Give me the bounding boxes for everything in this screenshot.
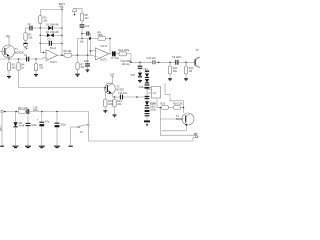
node	[109, 38, 111, 40]
switch S1	[71, 112, 90, 135]
node	[77, 54, 79, 56]
node	[105, 87, 107, 89]
node	[56, 111, 58, 113]
ground	[7, 77, 11, 80]
node	[40, 43, 42, 45]
capacitor C6	[84, 55, 90, 70]
resistor R12	[184, 62, 194, 78]
svg-text:TL072: TL072	[100, 59, 108, 62]
IC box U1	[147, 87, 161, 99]
ground	[113, 115, 117, 118]
transistor T2	[105, 83, 125, 97]
divider top rail	[78, 38, 88, 56]
node square	[89, 37, 91, 39]
wire to ground	[70, 127, 72, 146]
wire from box to R15	[157, 99, 162, 108]
wire input upper	[91, 50, 96, 52]
wire output	[58, 54, 65, 56]
svg-text:C9 100n: C9 100n	[172, 56, 182, 59]
wire down from terminal	[1, 113, 3, 146]
supply label +9V (T2)	[110, 74, 115, 84]
supply label +9V (rail)	[143, 68, 149, 74]
capacitor C19 electrolytic	[37, 112, 50, 147]
svg-text:100n: 100n	[31, 124, 37, 127]
node	[40, 27, 42, 29]
node	[61, 54, 63, 56]
svg-text:BC337: BC337	[176, 118, 184, 121]
svg-text:C7 10u: C7 10u	[111, 57, 120, 60]
label C18	[33, 106, 39, 112]
potentiometer P1 volume	[121, 60, 153, 66]
diode D6	[145, 79, 149, 83]
wire non-inverting input	[43, 58, 46, 59]
bus: emitter row	[0, 58, 43, 60]
wire feedback vertical left	[90, 39, 92, 56]
svg-text:100u: 100u	[150, 109, 156, 112]
wire right rail	[61, 10, 63, 56]
wire input lower	[91, 55, 96, 57]
svg-text:D2 1N4148: D2 1N4148	[46, 31, 59, 34]
capacitor C5 small	[82, 31, 89, 35]
node	[18, 58, 20, 60]
resistor R13	[104, 88, 115, 111]
transistor T4	[176, 113, 194, 126]
svg-text:D1 1N4148: D1 1N4148	[46, 23, 59, 26]
output terminal LS	[193, 133, 199, 138]
wire emitter row	[162, 126, 186, 131]
node	[15, 111, 17, 113]
node	[158, 62, 160, 64]
svg-text:4k7: 4k7	[85, 17, 90, 20]
capacitor C11	[113, 92, 148, 99]
wire to speaker top	[160, 119, 194, 135]
capacitor C12	[139, 85, 152, 96]
svg-text:R10 100k: R10 100k	[119, 49, 130, 52]
svg-text:100n: 100n	[84, 60, 90, 63]
svg-text:100k: 100k	[98, 34, 104, 37]
svg-text:R16 22k: R16 22k	[173, 103, 183, 106]
capacitor C10 series	[147, 57, 176, 65]
svg-text:100u: 100u	[60, 124, 66, 127]
ground	[138, 81, 142, 84]
resistor R3	[7, 59, 16, 76]
wire inverting input	[40, 52, 46, 54]
capacitor C15	[145, 114, 150, 121]
op-amp IC1-B	[96, 45, 109, 62]
svg-text:5V6: 5V6	[131, 74, 136, 77]
svg-text:100n: 100n	[33, 109, 39, 112]
node	[185, 62, 187, 64]
diode D8	[13, 112, 24, 147]
capacitor C1	[24, 54, 29, 61]
diode D1	[40, 23, 62, 30]
capacitor C4	[80, 25, 90, 39]
capacitor C2	[26, 23, 41, 31]
ground	[54, 146, 60, 147]
svg-text:R6 10k: R6 10k	[64, 50, 73, 53]
wire output	[109, 53, 112, 55]
svg-text:+9V: +9V	[143, 68, 148, 71]
resistor R5	[34, 59, 44, 74]
svg-text:4148: 4148	[19, 125, 25, 128]
node	[61, 43, 63, 45]
node	[41, 111, 43, 113]
svg-text:BC550C: BC550C	[15, 51, 25, 54]
node	[146, 96, 148, 98]
wire long run to T2 base	[19, 87, 106, 89]
transistor T3	[193, 49, 205, 67]
capacitor C14	[145, 108, 157, 112]
capacitor C18	[26, 112, 38, 147]
svg-text:10k log: 10k log	[122, 63, 131, 66]
svg-text:2u2: 2u2	[85, 25, 90, 28]
resistor R17	[18, 107, 28, 114]
resistor R8	[80, 13, 89, 24]
resistor R4	[17, 59, 25, 88]
node	[40, 35, 42, 37]
diode D4 zener	[131, 73, 143, 81]
node	[8, 58, 10, 60]
resistor R16	[173, 103, 184, 110]
svg-text:TL072: TL072	[50, 61, 58, 64]
svg-text:C10 10u: C10 10u	[147, 57, 157, 60]
diode D5	[138, 74, 149, 79]
labels near box	[150, 103, 156, 109]
ground	[34, 75, 38, 78]
diode D7	[145, 101, 157, 107]
resistor R1	[39, 10, 49, 29]
wire base feed T4	[160, 108, 185, 120]
ground	[103, 111, 107, 114]
wire collector feed	[183, 101, 185, 113]
capacitor C7 electrolytic	[111, 51, 120, 60]
node	[81, 33, 83, 35]
bottom rail	[89, 126, 193, 141]
node	[61, 27, 63, 29]
svg-text:BATT: BATT	[0, 125, 2, 132]
wire left rail	[39, 28, 41, 53]
ground	[168, 79, 172, 82]
svg-text:2k2: 2k2	[12, 66, 17, 69]
resistor R6	[64, 50, 91, 57]
node	[114, 96, 116, 98]
resistor R2	[24, 28, 33, 43]
capacitor C20 electrolytic	[55, 112, 67, 147]
svg-text:100u: 100u	[150, 105, 156, 108]
svg-text:100u: 100u	[139, 86, 145, 89]
supply label +9V	[59, 3, 66, 10]
label	[0, 125, 2, 132]
diode D2 / D3 anti-parallel	[40, 31, 62, 38]
svg-text:IC1-A: IC1-A	[50, 47, 57, 50]
resistor R7	[76, 55, 85, 74]
ground	[13, 146, 19, 147]
node	[160, 107, 162, 109]
ground	[39, 146, 45, 147]
microphone jack hook	[73, 8, 82, 15]
microphone MIC1	[23, 43, 27, 50]
supply label +6V	[6, 35, 11, 45]
wire chain y33.5	[89, 34, 91, 38]
svg-text:IC1-B: IC1-B	[101, 45, 108, 48]
wire collector supply	[165, 83, 184, 101]
ground	[68, 145, 72, 147]
wire	[40, 9, 62, 11]
resistor R15	[161, 103, 174, 110]
svg-text:1M: 1M	[189, 70, 192, 73]
node	[90, 50, 92, 52]
ground	[86, 70, 90, 73]
capacitor C8	[138, 62, 143, 72]
capacitor C3	[40, 38, 62, 45]
capacitor C9	[172, 56, 193, 65]
op-amp IC1-A	[46, 47, 58, 64]
capacitor C13	[145, 96, 150, 101]
wire feedback vertical right	[109, 39, 111, 55]
ground	[144, 120, 150, 126]
node	[136, 96, 138, 98]
node	[87, 54, 89, 56]
ground	[25, 146, 31, 147]
node	[35, 58, 37, 60]
svg-text:C11 10n: C11 10n	[118, 92, 128, 95]
node	[183, 107, 185, 109]
resistor R9 feedback	[91, 31, 111, 40]
input terminal J1	[1, 110, 19, 112]
node	[61, 35, 63, 37]
svg-text:47u: 47u	[45, 121, 50, 124]
resistor R11	[168, 62, 178, 78]
resistor R10	[119, 49, 132, 56]
ground	[184, 79, 188, 82]
wire down to volume	[130, 54, 132, 63]
svg-text:R15: R15	[161, 103, 166, 106]
ground	[75, 74, 80, 77]
capacitor C17 series	[27, 109, 89, 114]
ground	[0, 145, 4, 147]
transistor T1	[0, 45, 24, 59]
node	[169, 62, 171, 64]
resistor R14	[113, 97, 123, 115]
